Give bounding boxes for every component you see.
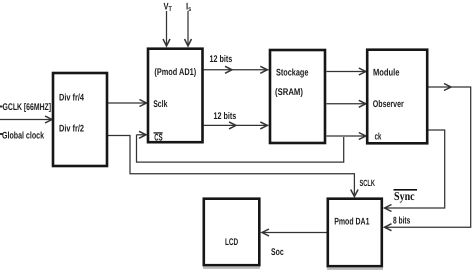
svg-text:Observer: Observer: [373, 99, 404, 110]
svg-text:Module: Module: [373, 67, 400, 78]
svg-text:Div fr/4: Div fr/4: [59, 92, 84, 103]
svg-text:Pmod DA1: Pmod DA1: [334, 217, 370, 228]
svg-text:Global clock: Global clock: [2, 131, 44, 142]
svg-text:SCLK: SCLK: [360, 178, 376, 188]
svg-text:(SRAM): (SRAM): [275, 87, 303, 98]
svg-text:Sclk: Sclk: [153, 99, 168, 110]
svg-text:8 bits: 8 bits: [393, 216, 410, 227]
svg-text:12 bits: 12 bits: [210, 54, 233, 65]
svg-text:Div fr/2: Div fr/2: [59, 124, 84, 135]
svg-text:CS: CS: [154, 133, 163, 144]
svg-text:LCD: LCD: [225, 237, 238, 248]
svg-text:ck: ck: [375, 132, 382, 143]
svg-text:GCLK [66MHZ]: GCLK [66MHZ]: [3, 102, 52, 113]
svg-text:(Pmod AD1): (Pmod AD1): [154, 67, 196, 78]
svg-text:Sync: Sync: [394, 189, 415, 203]
svg-text:Stockage: Stockage: [276, 67, 309, 78]
svg-text:Soc: Soc: [271, 247, 284, 258]
svg-text:12 bits: 12 bits: [214, 111, 237, 122]
